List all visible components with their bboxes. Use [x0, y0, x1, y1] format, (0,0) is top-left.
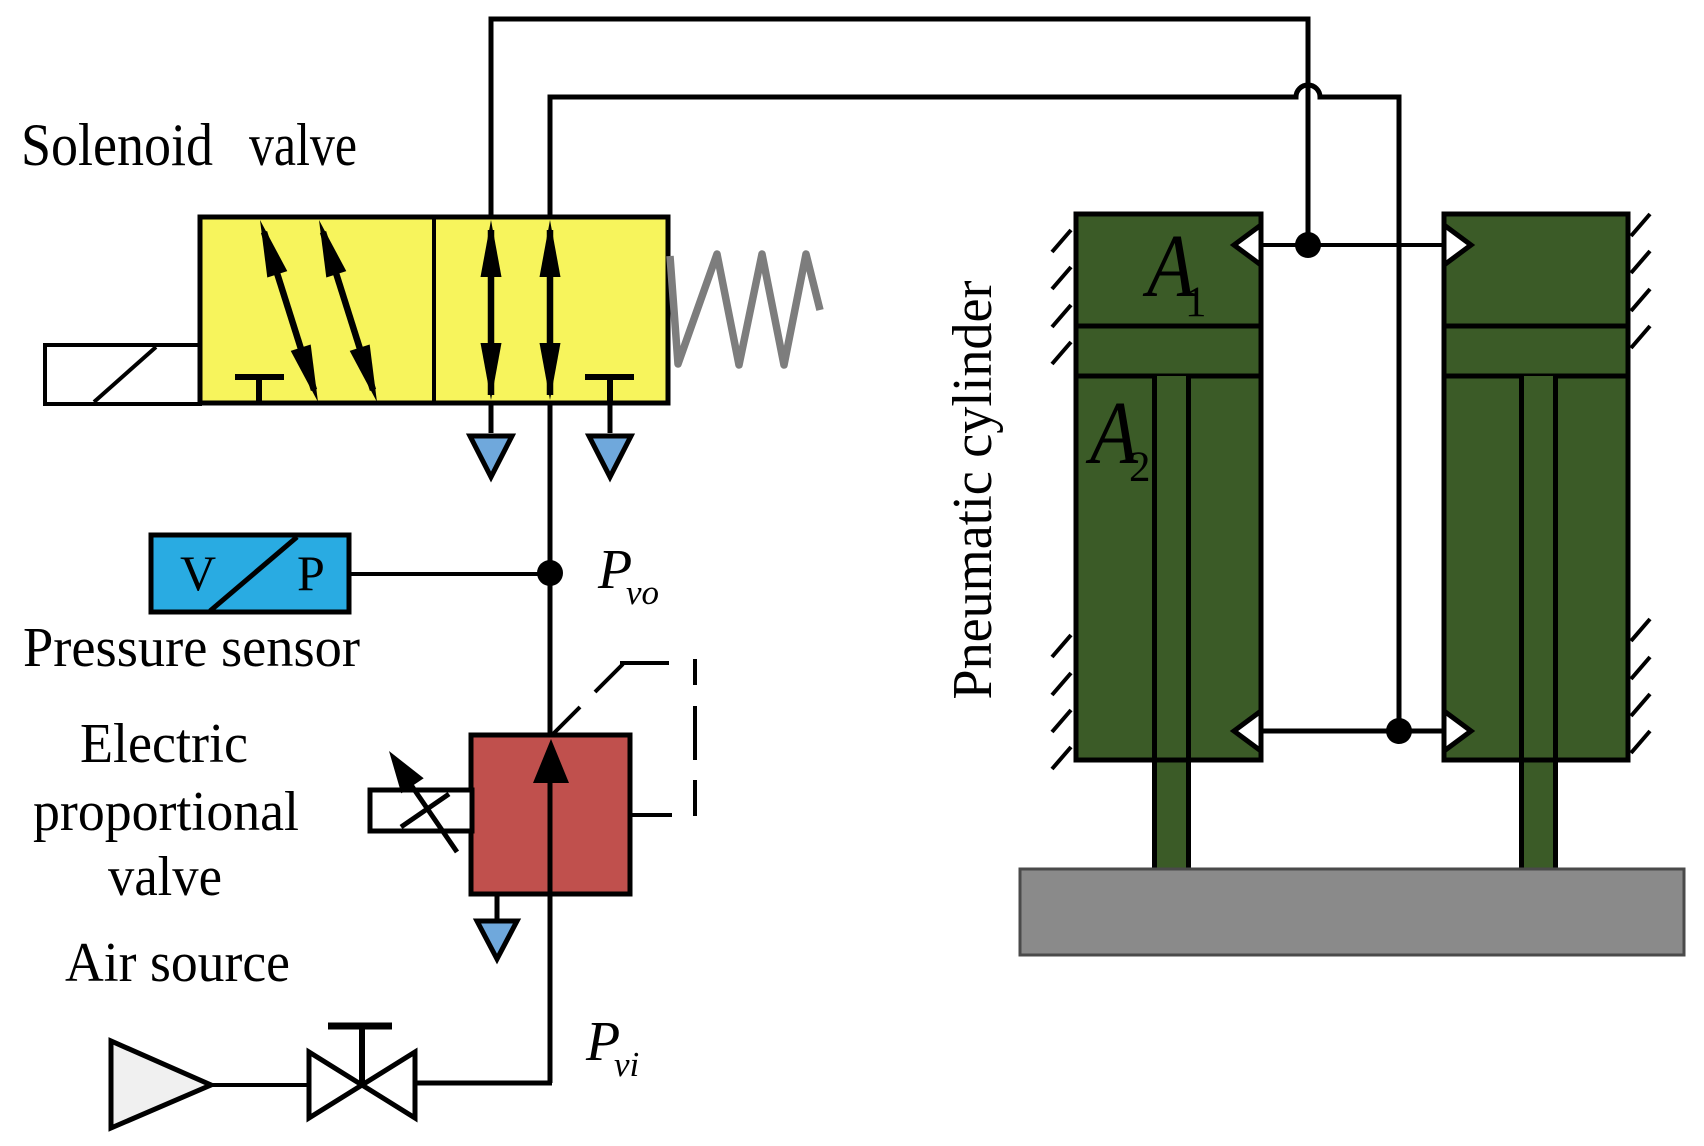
right cylinder mount hatching top — [1631, 214, 1650, 348]
svg-text:P: P — [297, 545, 325, 601]
air source symbol — [111, 1041, 211, 1128]
exhaust stub + muffler left — [470, 403, 512, 477]
node Pvo junction dot — [537, 560, 563, 586]
svg-text:Electric: Electric — [80, 713, 248, 775]
wire valve to node Pvi — [415, 1081, 552, 1086]
svg-text:proportional: proportional — [33, 781, 299, 843]
pressure sensor V/P — [151, 535, 349, 612]
straight flow arrow 2 (right cell) — [540, 220, 561, 400]
label A2 — [1086, 384, 1151, 491]
crossed flow arrow 1 (left cell) — [260, 220, 318, 402]
label Air source — [65, 932, 290, 994]
main vertical line Pvo-Pvi — [548, 403, 553, 1083]
right cylinder body — [1444, 214, 1628, 760]
label Pvi — [585, 1011, 639, 1084]
exhaust stub + muffler right — [589, 403, 631, 477]
svg-text:vi: vi — [614, 1045, 639, 1084]
solenoid actuator box — [45, 345, 200, 404]
label Pneumatic cylinder (rotated) — [942, 280, 1004, 699]
label Pressure sensor — [23, 617, 360, 679]
wire W2 from valve port 2 to cylinder A2 line (with hop over W1) — [550, 85, 1399, 726]
svg-text:Solenoid: Solenoid — [21, 112, 213, 178]
label Solenoid valve — [21, 112, 357, 178]
dashed pilot line — [552, 659, 695, 816]
electric proportional valve body — [471, 735, 630, 894]
main line through valve redrawn — [548, 760, 553, 894]
label Pvo — [597, 539, 659, 612]
bottom interconnect wire between cylinders — [1262, 729, 1442, 734]
svg-text:vo: vo — [626, 573, 659, 612]
return spring — [670, 254, 820, 365]
wire sensor to node Pvo — [349, 572, 550, 576]
right cylinder mount hatching bottom — [1631, 619, 1650, 753]
right cylinder bottom port notch — [1444, 711, 1471, 751]
right cylinder piston rod — [1444, 376, 1628, 870]
ground base — [1020, 869, 1684, 955]
svg-text:Pneumatic cylinder: Pneumatic cylinder — [942, 280, 1004, 699]
left cylinder bottom port notch — [1234, 711, 1261, 751]
hand shut-off valve — [309, 1026, 415, 1118]
svg-text:1: 1 — [1185, 279, 1207, 326]
right cylinder top port notch — [1444, 225, 1471, 265]
crossed flow arrow 2 (left cell) — [319, 220, 377, 402]
exhaust stub + muffler under proportional valve — [477, 894, 517, 959]
top interconnect wire between cylinders — [1262, 243, 1442, 247]
flow arrow inside proportional valve — [533, 739, 569, 783]
left cylinder top port notch — [1234, 225, 1261, 265]
blocked port T (right cell) — [585, 377, 634, 401]
left cylinder piston rod — [1076, 376, 1261, 870]
solenoid valve body (yellow, 2 positions) — [200, 217, 668, 403]
svg-text:valve: valve — [108, 846, 222, 908]
adjustment arrow through coil — [389, 751, 457, 852]
svg-text:Air source: Air source — [65, 932, 290, 994]
svg-text:V: V — [180, 545, 216, 601]
label Electric proportional valve — [33, 713, 299, 908]
left cylinder body — [1076, 214, 1261, 760]
svg-text:valve: valve — [249, 112, 357, 178]
junction dot bottom — [1386, 718, 1412, 744]
left cylinder mount hatching top — [1052, 230, 1071, 364]
svg-text:2: 2 — [1129, 444, 1151, 491]
left cylinder mount hatching bottom — [1052, 635, 1071, 769]
wire W1 from valve port 4 to cylinder A1 line — [491, 19, 1308, 242]
proportional solenoid coil — [370, 790, 472, 831]
wire air source to valve — [211, 1083, 311, 1087]
straight flow arrow 1 (right cell) — [481, 220, 502, 400]
svg-text:Pressure sensor: Pressure sensor — [23, 617, 360, 679]
blocked port T (left cell) — [235, 377, 284, 401]
label A1 — [1143, 217, 1207, 326]
junction dot top — [1295, 232, 1321, 258]
